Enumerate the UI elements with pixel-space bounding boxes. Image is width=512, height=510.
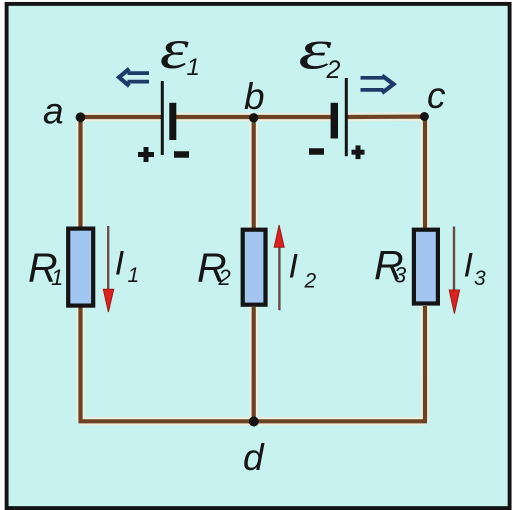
wire top: battery E2 to node c <box>346 114 425 119</box>
svg-text:1: 1 <box>187 54 200 81</box>
wire middle branch lower (R2 to d) <box>252 307 256 421</box>
current direction arrow left (double arrow) <box>119 69 149 86</box>
svg-text:I: I <box>115 245 125 283</box>
wire right branch upper (c to R3) <box>423 117 427 230</box>
node c <box>420 112 429 121</box>
svg-text:2: 2 <box>326 56 341 84</box>
wire left branch upper (a to R1) <box>78 117 82 229</box>
resistor R3 <box>414 230 438 304</box>
svg-text:2: 2 <box>304 269 317 292</box>
svg-text:1: 1 <box>51 265 63 290</box>
wire halos (jpeg-style light fringe along wires) <box>81 117 426 422</box>
svg-text:d: d <box>243 437 265 478</box>
battery E2 minus label <box>309 148 324 155</box>
svg-text:b: b <box>244 76 265 117</box>
battery E1 plus label <box>138 147 154 162</box>
resistor R1 <box>68 229 93 306</box>
current arrow I2 (up) <box>274 225 284 310</box>
battery E2 plus label <box>352 145 365 159</box>
svg-text:ε: ε <box>160 19 189 81</box>
svg-text:I: I <box>464 246 474 284</box>
battery E2 long plate <box>345 78 348 156</box>
wire middle branch upper (b to R2) <box>252 117 256 230</box>
svg-text:1: 1 <box>128 264 140 287</box>
wire top: battery E1 to node b to battery E2 <box>176 115 331 119</box>
svg-text:c: c <box>427 75 446 116</box>
battery E1 long plate <box>161 81 164 155</box>
node a <box>76 112 86 122</box>
battery E1 minus label <box>174 151 189 158</box>
current direction arrow right (double arrow) <box>361 76 394 93</box>
current arrow I1 (down) <box>103 226 113 312</box>
wire top: node a to battery E1 <box>81 115 163 119</box>
node d <box>249 417 259 427</box>
wire right branch lower (R3 to d rail) <box>423 306 427 421</box>
svg-text:3: 3 <box>394 263 407 288</box>
current arrow I3 (down) <box>449 227 459 314</box>
svg-text:2: 2 <box>218 265 231 290</box>
battery E2 short thick plate <box>331 103 338 139</box>
svg-text:a: a <box>43 91 64 132</box>
node b <box>249 113 258 122</box>
svg-text:3: 3 <box>474 267 486 290</box>
battery E1 short thick plate <box>169 103 176 140</box>
wire bottom rail through node d <box>79 419 428 423</box>
svg-text:I: I <box>289 248 299 286</box>
wire left branch lower (R1 to d rail) <box>78 306 82 421</box>
resistor R2 <box>243 230 266 305</box>
